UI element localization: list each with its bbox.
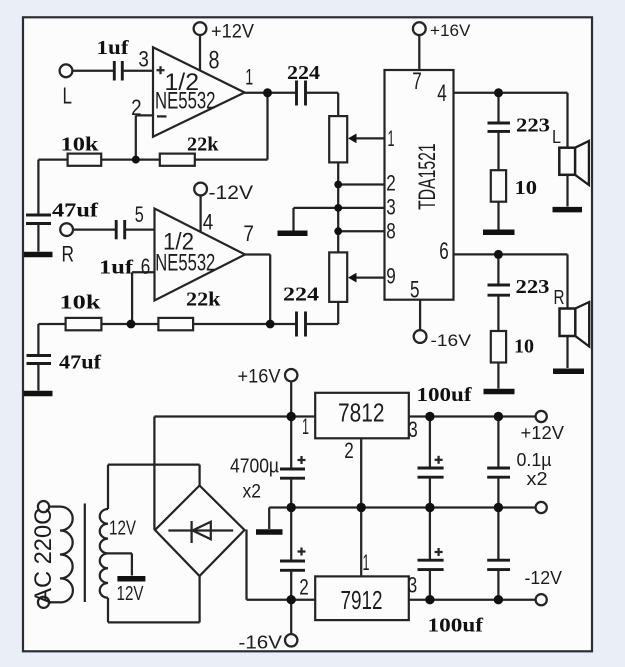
svg-text:22k: 22k	[186, 289, 221, 311]
svg-text:47uf: 47uf	[59, 352, 101, 374]
svg-text:1uf: 1uf	[97, 37, 129, 59]
svg-text:8: 8	[209, 46, 220, 74]
svg-text:NE5532: NE5532	[155, 88, 216, 115]
svg-text:12V: 12V	[109, 518, 136, 540]
svg-text:7812: 7812	[338, 398, 385, 428]
svg-text:R: R	[62, 242, 75, 267]
svg-text:L: L	[63, 82, 73, 108]
svg-text:+16V: +16V	[430, 21, 471, 40]
svg-text:-16V: -16V	[431, 331, 472, 350]
svg-text:10k: 10k	[60, 292, 102, 314]
svg-text:TDA1521: TDA1521	[414, 143, 441, 210]
svg-text:x2: x2	[243, 482, 262, 503]
svg-text:4: 4	[437, 80, 447, 107]
svg-text:7: 7	[243, 221, 254, 246]
svg-text:2: 2	[344, 438, 354, 463]
svg-text:-12V: -12V	[209, 183, 254, 204]
svg-text:10: 10	[514, 336, 534, 358]
svg-text:4700µ: 4700µ	[230, 456, 279, 478]
svg-text:100uf: 100uf	[417, 384, 472, 406]
svg-text:9: 9	[386, 264, 396, 289]
svg-text:3: 3	[408, 573, 418, 598]
svg-text:6: 6	[439, 238, 449, 265]
svg-text:100uf: 100uf	[428, 615, 484, 637]
svg-text:5: 5	[135, 202, 144, 227]
svg-text:10: 10	[515, 177, 538, 199]
svg-text:+12V: +12V	[211, 21, 254, 42]
svg-text:1: 1	[245, 65, 253, 90]
svg-text:3: 3	[408, 417, 418, 442]
svg-text:R: R	[554, 287, 565, 309]
svg-text:6: 6	[141, 254, 151, 279]
svg-text:2: 2	[386, 171, 396, 196]
svg-text:7: 7	[412, 68, 422, 95]
svg-text:2: 2	[131, 95, 142, 120]
svg-text:3: 3	[386, 195, 396, 220]
svg-text:1uf: 1uf	[99, 257, 133, 279]
svg-text:-16V: -16V	[239, 632, 283, 652]
svg-text:5: 5	[410, 277, 420, 304]
svg-text:2: 2	[299, 575, 309, 600]
svg-text:223: 223	[516, 115, 550, 137]
svg-text:3: 3	[138, 47, 149, 72]
svg-text:7912: 7912	[341, 585, 383, 615]
svg-text:AC 220C: AC 220C	[30, 508, 57, 604]
svg-text:224: 224	[287, 62, 320, 84]
svg-text:NE5532: NE5532	[155, 250, 215, 277]
svg-text:224: 224	[283, 284, 319, 306]
svg-text:12V: 12V	[117, 583, 144, 605]
svg-text:+12V: +12V	[521, 423, 565, 443]
svg-text:+16V: +16V	[238, 366, 281, 387]
svg-text:22k: 22k	[187, 134, 219, 156]
svg-text:8: 8	[386, 219, 396, 244]
svg-text:L: L	[552, 127, 561, 147]
svg-text:47uf: 47uf	[52, 200, 98, 222]
svg-text:1: 1	[363, 550, 370, 575]
svg-text:x2: x2	[527, 469, 548, 489]
svg-text:0.1µ: 0.1µ	[517, 450, 552, 470]
svg-text:4: 4	[203, 210, 214, 235]
svg-text:10k: 10k	[61, 134, 100, 156]
svg-text:1: 1	[388, 126, 395, 151]
svg-text:-12V: -12V	[525, 568, 563, 588]
svg-text:223: 223	[516, 276, 550, 298]
svg-text:1: 1	[302, 414, 309, 439]
